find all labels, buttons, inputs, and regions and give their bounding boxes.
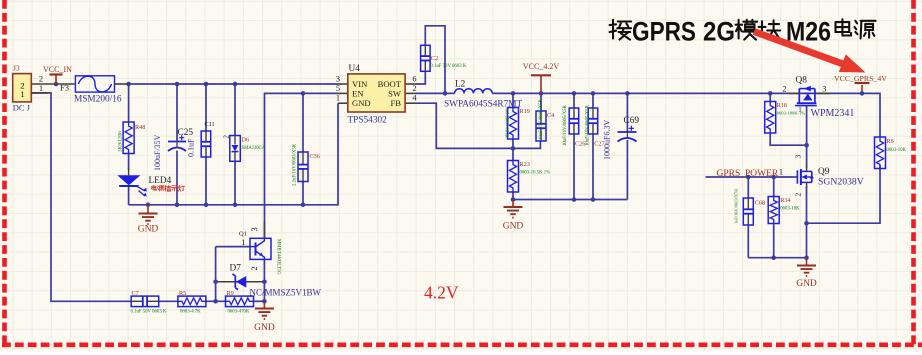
pin U4 EN stub: [338, 92, 348, 94]
resistor R48 body: [123, 122, 134, 154]
svg-text:LED4: LED4: [149, 176, 172, 186]
svg-text:GND: GND: [138, 225, 159, 235]
junction D6 top: [233, 82, 238, 87]
resistor R6 body: [875, 137, 886, 169]
svg-text:100uF/35V: 100uF/35V: [153, 134, 162, 171]
power VCC_IN stem: [55, 75, 57, 85]
svg-text:0603-10K: 0603-10K: [887, 148, 907, 153]
wire R6 bottom to Q9 source node: [807, 166, 881, 224]
wire R48 to LED: [128, 154, 130, 171]
junction R34 bottom: [771, 255, 776, 260]
annotation title GPRS 2G module M26 power: [610, 17, 876, 47]
wire GPRS_POWER net to Q9 gate: [706, 176, 795, 178]
svg-text:0603-470K: 0603-470K: [228, 310, 250, 315]
svg-text:D7: D7: [230, 264, 242, 274]
svg-text:MSM200/16: MSM200/16: [74, 95, 122, 105]
junction VCC_GPRS stem: [860, 91, 865, 96]
svg-text:1: 1: [336, 94, 340, 103]
svg-text:GND: GND: [503, 222, 524, 232]
svg-text:C11: C11: [205, 121, 215, 128]
svg-text:1: 1: [39, 83, 43, 93]
svg-text:VIN: VIN: [352, 79, 368, 89]
svg-text:GND: GND: [254, 323, 275, 333]
svg-text:C7: C7: [132, 290, 139, 297]
capacitor C25 plates: [168, 141, 186, 143]
svg-text:Q9: Q9: [818, 167, 830, 177]
fuse F3 body: [75, 76, 114, 92]
svg-text:WPM2341: WPM2341: [811, 108, 855, 119]
svg-text:2G: 2G: [703, 17, 735, 47]
svg-text:R19: R19: [520, 108, 530, 115]
svg-text:C25: C25: [178, 128, 194, 138]
svg-text:10uF/16V/0805/X5R: 10uF/16V/0805/X5R: [563, 104, 568, 146]
wire VCC_GPRS stem-to-rail segment: [861, 85, 863, 93]
power VCC_GPRS_4V bar: [855, 82, 870, 84]
resistor R34 body: [768, 197, 779, 224]
transistor Q9 symbol: [795, 166, 814, 188]
svg-text:1: 1: [20, 89, 24, 99]
svg-text:C36: C36: [310, 153, 320, 160]
diode D7 symbol: [233, 274, 239, 290]
svg-text:U4: U4: [349, 64, 361, 74]
svg-text:GND: GND: [352, 98, 371, 108]
ground mid symbol: [504, 207, 523, 218]
transistor Q8 pin3 stub: [816, 92, 830, 94]
svg-text:VCC_IN: VCC_IN: [43, 65, 72, 74]
connector J3 pin1 stub: [32, 92, 49, 94]
wire R19 top lead: [512, 93, 514, 107]
power VCC_4.2V stem: [540, 75, 542, 93]
svg-text:R34: R34: [780, 197, 790, 204]
svg-text:4.2V: 4.2V: [424, 283, 459, 303]
svg-text:R5: R5: [179, 290, 186, 297]
svg-text:0603-10K: 0603-10K: [780, 207, 800, 212]
svg-text:3: 3: [794, 155, 803, 159]
svg-text:1: 1: [779, 168, 783, 177]
junction C25 top: [175, 82, 180, 87]
wire C4 top lead: [540, 93, 542, 111]
svg-text:GND: GND: [796, 279, 817, 289]
wire D6 branch bottom: [234, 162, 236, 205]
wire C25 branch top: [176, 84, 178, 142]
inductor L2 coil: [455, 89, 493, 94]
wire bottom chain R9-end: [254, 300, 264, 302]
svg-text:0.1uF: 0.1uF: [187, 138, 196, 157]
svg-text:2: 2: [223, 135, 231, 139]
wire D6 branch top: [234, 84, 236, 136]
capacitor C69 plates: [618, 131, 637, 133]
capacitor C11 body: [201, 131, 211, 157]
junction emitter D7: [262, 280, 267, 285]
wire Q1 base net: [216, 246, 250, 248]
svg-text:R48: R48: [135, 124, 145, 131]
svg-text:3: 3: [336, 75, 340, 84]
wire J3 pin1 down-and-right to C7: [32, 93, 132, 301]
svg-text:2.2uF/16V/0603/X5R: 2.2uF/16V/0603/X5R: [293, 143, 298, 186]
svg-text:BOOT: BOOT: [378, 79, 402, 89]
svg-text:SMAJ30CA: SMAJ30CA: [242, 146, 266, 151]
transistor Q1 collector stub: [263, 222, 265, 238]
junction Q8 gate T: [804, 143, 809, 148]
junction C11 bottom: [204, 203, 209, 208]
svg-text:2: 2: [794, 193, 803, 197]
svg-text:GPRS_POWER: GPRS_POWER: [717, 169, 779, 179]
svg-text:Q1: Q1: [239, 230, 247, 237]
junction FB-R19R23: [511, 146, 516, 151]
wire R18 bottom to Q8 gate node: [770, 133, 806, 146]
wire L2 out main 4.2V rail: [492, 93, 880, 137]
wire C11 branch top: [205, 84, 207, 131]
svg-text:3: 3: [250, 227, 259, 231]
wire Q1 emitter vertical: [263, 259, 265, 301]
svg-text:2: 2: [782, 85, 786, 94]
wire C36 bottom lead: [302, 182, 304, 205]
junction SW-C2: [443, 91, 448, 96]
svg-text:6: 6: [412, 75, 416, 84]
op-amp U4 body: [348, 74, 405, 112]
wire C26 top lead: [573, 93, 575, 108]
wire R19 bottom to R23 top: [512, 139, 514, 161]
junction VCC4V2-C4: [539, 91, 544, 96]
svg-text:0603-4.7K: 0603-4.7K: [180, 310, 201, 315]
wire R23 bottom to GND and analog rail: [512, 192, 514, 200]
power VCC_IN bar: [50, 73, 63, 75]
led LED4 symbol: [119, 176, 140, 185]
wire C69 bottom lead: [626, 140, 628, 200]
wire C25 branch bottom: [176, 151, 178, 205]
resistor R9 body: [226, 296, 254, 307]
wire C26 bottom lead: [573, 134, 575, 200]
svg-text:1000uF6.3V: 1000uF6.3V: [603, 120, 612, 160]
junction Q9 source-R6: [804, 221, 809, 226]
junction C25 bottom: [175, 203, 180, 208]
capacitor C4 body: [536, 111, 546, 141]
junction gnd rail Q9: [804, 255, 809, 260]
svg-text:MMBT4403LT1G: MMBT4403LT1G: [276, 239, 281, 275]
svg-text:10uF/25V/0805/X5R: 10uF/25V/0805/X5R: [539, 98, 544, 140]
junction gnd tap input rail: [146, 203, 151, 208]
capacitor C2 body: [421, 45, 431, 71]
ground mid stem: [512, 200, 514, 208]
capacitor C26 body: [569, 108, 579, 134]
wire SW node to L2: [416, 92, 455, 94]
svg-text:2: 2: [250, 266, 259, 270]
ground Q1 stem: [263, 301, 265, 308]
wire C68 bottom lead: [747, 225, 749, 258]
svg-text:3K9/1206: 3K9/1206: [118, 131, 124, 152]
svg-text:C2: C2: [431, 55, 438, 62]
svg-text:Q8: Q8: [796, 76, 808, 86]
svg-text:R6: R6: [887, 138, 894, 145]
svg-text:EN: EN: [352, 89, 364, 99]
junction C26 top: [572, 91, 577, 96]
svg-text:SGN2038V: SGN2038V: [818, 177, 864, 188]
fuse F3 lead right: [115, 83, 129, 85]
connector J3 body: [13, 74, 32, 102]
capacitor C36 body: [298, 152, 308, 182]
resistor R23 body: [508, 161, 519, 193]
wire VCC_IN rail (fuse to U4 VIN): [129, 83, 338, 85]
svg-text:VCC_GPRS_4V: VCC_GPRS_4V: [834, 74, 887, 83]
svg-text:5: 5: [336, 84, 340, 93]
svg-text:0603 100K 1%: 0603 100K 1%: [506, 108, 511, 137]
junction C27 bottom: [591, 197, 596, 202]
wire D7 horizontal link: [216, 281, 265, 283]
svg-text:R23: R23: [520, 161, 530, 168]
svg-text:TPS54302: TPS54302: [348, 116, 388, 126]
junction C69 top: [625, 91, 630, 96]
junction emitter bottom: [262, 299, 267, 304]
ground input rail symbol: [139, 214, 158, 225]
svg-text:2: 2: [412, 84, 416, 93]
svg-text:0.1uF 50V 0603 K: 0.1uF 50V 0603 K: [430, 64, 466, 69]
resistor R19 body: [508, 108, 519, 140]
junction R18 top: [768, 91, 773, 96]
pin U4 FB stub: [405, 102, 415, 104]
transistor Q8 symbol: [795, 86, 817, 106]
ground Q1 symbol: [255, 309, 274, 320]
svg-text:VCC_4.2V: VCC_4.2V: [523, 62, 559, 71]
svg-text:FB: FB: [390, 98, 401, 108]
transistor Q8 pin2 stub: [789, 92, 799, 94]
connector J3 pin2 stub: [32, 83, 76, 85]
svg-text:C4: C4: [547, 112, 554, 119]
wire R48/LED branch: [128, 84, 130, 122]
wire LED to bottom rail: [128, 186, 130, 205]
wire Q9 source down to gnd rail: [806, 187, 808, 258]
svg-text:C26: C26: [575, 141, 585, 148]
wire bottom chain C7-R5: [159, 300, 178, 302]
junction C11 top: [204, 82, 209, 87]
junction R34 tap: [771, 175, 776, 180]
wire C69 top lead: [626, 93, 628, 132]
resistor R5 body: [178, 296, 206, 307]
svg-text:R18: R18: [777, 102, 787, 109]
capacitor C7 body: [131, 296, 159, 307]
junction R48 branch: [126, 82, 131, 87]
wire Q8 gate node down to Q9 drain: [806, 145, 808, 167]
junction C26 bottom: [572, 197, 577, 202]
pin U4 SW stub: [405, 92, 415, 94]
diode D6 body: [230, 136, 241, 162]
wire C2 top loop to SW node: [425, 26, 445, 94]
resistor R18 body: [765, 102, 776, 134]
svg-text:10uF/16V/0805/X5R: 10uF/16V/0805/X5R: [585, 104, 590, 146]
wire base node vertical: [215, 247, 217, 302]
svg-text:SW: SW: [388, 89, 402, 99]
wire analog gnd rail: [513, 199, 627, 201]
wire pulldown gnd rail: [748, 257, 806, 259]
led LED4 caption chinese: [152, 185, 185, 191]
wire C27 bottom lead: [592, 134, 594, 200]
svg-text:DC J: DC J: [13, 103, 31, 113]
svg-text:R9: R9: [227, 290, 234, 297]
svg-text:0603-16.5K 1%: 0603-16.5K 1%: [520, 171, 551, 176]
wire C68 top lead: [747, 177, 749, 198]
svg-text:GPRS: GPRS: [632, 17, 696, 47]
power VCC_4.2V bar: [531, 74, 551, 76]
junction C36 top EN: [301, 91, 306, 96]
capacitor C27 body: [588, 108, 598, 134]
junction D6 bottom: [233, 203, 238, 208]
svg-text:D6: D6: [242, 137, 250, 144]
junction C36 bottom: [301, 203, 306, 208]
annotation red arrow: [754, 32, 866, 73]
wire Q8 gate stem: [806, 106, 808, 146]
pin U4 GND stub: [338, 102, 348, 104]
wire R18 top lead: [769, 93, 771, 101]
wire FB divider net: [416, 103, 541, 148]
wire C11 branch bottom: [205, 157, 207, 205]
wire C36 top lead: [302, 93, 304, 152]
pin U4 VIN stub: [338, 83, 348, 85]
transistor Q1 body: [250, 238, 271, 259]
svg-text:L2: L2: [455, 80, 466, 90]
wire input bottom rail: [129, 103, 338, 205]
ground Q9 symbol: [797, 266, 816, 277]
junction base node bottom: [213, 299, 218, 304]
junction base node D7: [213, 280, 218, 285]
junction C68 tap: [746, 175, 751, 180]
wire R34 top lead: [773, 177, 775, 197]
svg-text:NC/MMSZ5V1BW: NC/MMSZ5V1BW: [250, 288, 322, 298]
svg-text:0.1uF 50V 0603 K: 0.1uF 50V 0603 K: [131, 310, 167, 315]
junction VCC_IN node: [54, 82, 59, 87]
capacitor C68 body: [743, 198, 753, 225]
pin U4 BOOT stub: [405, 83, 415, 85]
wire EN net (U4 EN left, down to Q1 collector): [265, 93, 339, 238]
junction R23 bottom: [511, 197, 516, 202]
wire C27 top lead: [592, 93, 594, 108]
svg-text:F3: F3: [60, 83, 69, 93]
ground input rail stem: [147, 205, 149, 214]
wire BOOT to C2: [416, 71, 426, 84]
svg-text:1: 1: [798, 106, 802, 114]
svg-text:C68: C68: [755, 200, 765, 207]
junction C27 top: [591, 91, 596, 96]
svg-text:1uF/16V/0603/X7R: 1uF/16V/0603/X7R: [734, 189, 739, 224]
svg-text:1: 1: [241, 238, 245, 247]
ground Q9 stem: [806, 258, 808, 266]
wire bottom chain R5-R9: [206, 300, 226, 302]
junction R19 top: [511, 91, 516, 96]
svg-text:C69: C69: [624, 116, 640, 126]
svg-text:3: 3: [822, 85, 826, 94]
svg-text:J3: J3: [13, 64, 20, 73]
wire R34 bottom lead: [773, 224, 775, 258]
